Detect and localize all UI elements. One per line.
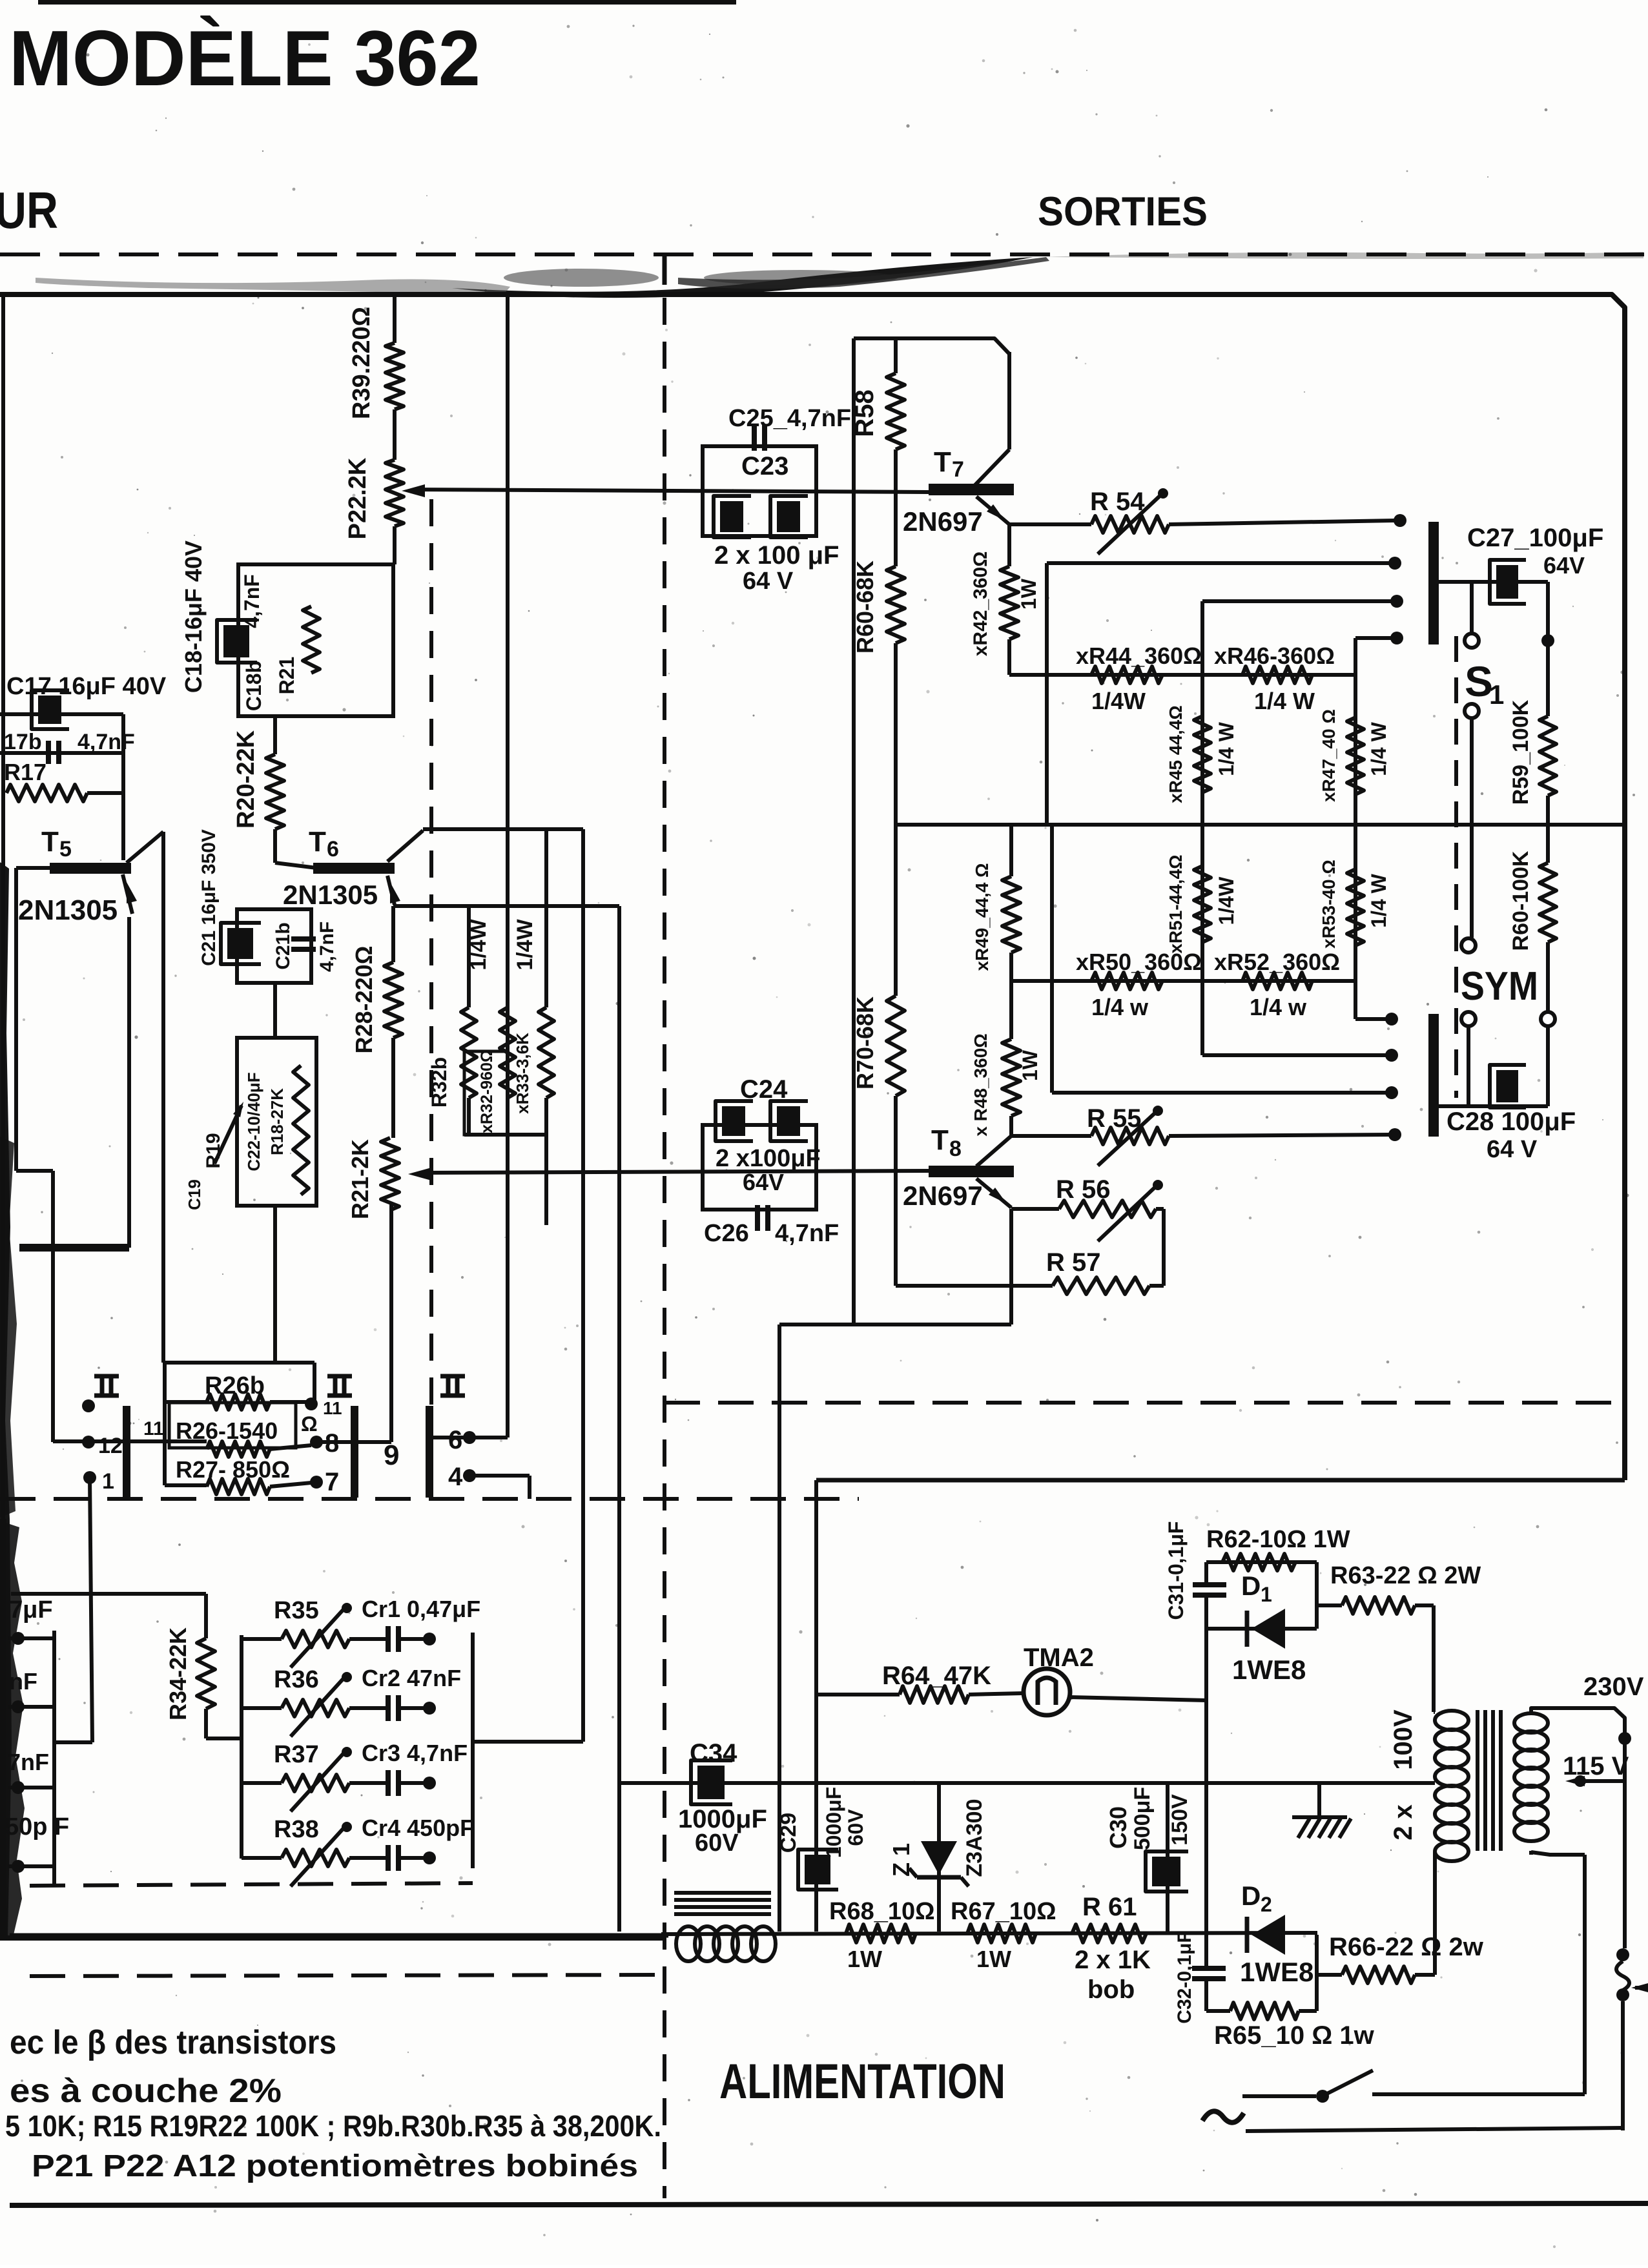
svg-text:1W: 1W bbox=[1018, 1049, 1042, 1081]
svg-text:R59_100K: R59_100K bbox=[1509, 699, 1533, 805]
svg-text:1000μF: 1000μF bbox=[822, 1787, 845, 1858]
svg-text:500μF: 500μF bbox=[1130, 1787, 1155, 1850]
svg-text:R68_10Ω: R68_10Ω bbox=[829, 1898, 935, 1925]
svg-text:nF: nF bbox=[9, 1668, 37, 1695]
svg-text:2 x: 2 x bbox=[1389, 1804, 1417, 1840]
svg-text:2 x 100 μF: 2 x 100 μF bbox=[714, 541, 839, 570]
svg-text:x R48_360Ω: x R48_360Ω bbox=[971, 1033, 991, 1136]
svg-text:4,7nF: 4,7nF bbox=[775, 1220, 839, 1247]
svg-text:R36: R36 bbox=[274, 1666, 319, 1693]
svg-text:1/4 w: 1/4 w bbox=[1091, 994, 1149, 1020]
svg-text:C18b: C18b bbox=[242, 661, 265, 711]
svg-text:R60-68K: R60-68K bbox=[852, 561, 878, 654]
svg-text:R66-22 Ω 2w: R66-22 Ω 2w bbox=[1329, 1933, 1484, 1961]
svg-text:6: 6 bbox=[327, 837, 339, 861]
svg-text:xR53-40 Ω: xR53-40 Ω bbox=[1319, 860, 1339, 949]
svg-text:5 10K; R15 R19R22 100K ; R9b.R: 5 10K; R15 R19R22 100K ; R9b.R30b.R35 à … bbox=[5, 2109, 661, 2143]
svg-text:R37: R37 bbox=[274, 1741, 319, 1768]
svg-text:xR49_44,4 Ω: xR49_44,4 Ω bbox=[972, 863, 992, 971]
svg-text:100V: 100V bbox=[1389, 1709, 1417, 1770]
svg-text:xR47_40 Ω: xR47_40 Ω bbox=[1319, 709, 1339, 802]
svg-text:D: D bbox=[1241, 1571, 1261, 1601]
svg-text:C23: C23 bbox=[741, 452, 788, 480]
svg-text:64V: 64V bbox=[1543, 552, 1585, 579]
svg-text:50p F: 50p F bbox=[5, 1813, 69, 1840]
svg-text:P22.2K: P22.2K bbox=[344, 457, 371, 539]
svg-text:R34-22K: R34-22K bbox=[165, 1627, 191, 1720]
svg-text:1WE8: 1WE8 bbox=[1240, 1957, 1313, 1987]
svg-text:11: 11 bbox=[323, 1398, 342, 1418]
svg-text:150V: 150V bbox=[1168, 1794, 1192, 1846]
svg-text:C18-16μF 40V: C18-16μF 40V bbox=[180, 541, 207, 693]
svg-text:1/4 w: 1/4 w bbox=[1250, 994, 1307, 1020]
svg-text:R64_47K: R64_47K bbox=[882, 1662, 991, 1690]
svg-text:2N697: 2N697 bbox=[903, 1180, 983, 1211]
svg-text:C29: C29 bbox=[776, 1813, 801, 1853]
svg-text:64 V: 64 V bbox=[1487, 1136, 1538, 1163]
svg-text:C17 16μF 40V: C17 16μF 40V bbox=[6, 673, 167, 700]
svg-text:60V: 60V bbox=[844, 1809, 867, 1846]
svg-text:Cr4 450pF: Cr4 450pF bbox=[362, 1815, 474, 1841]
svg-text:1W: 1W bbox=[1017, 578, 1040, 610]
svg-text:Cr1 0,47μF: Cr1 0,47μF bbox=[362, 1596, 480, 1622]
svg-text:C30: C30 bbox=[1105, 1806, 1131, 1849]
svg-text:1/4 W: 1/4 W bbox=[1367, 721, 1390, 776]
svg-text:R18-27K: R18-27K bbox=[267, 1088, 287, 1155]
svg-text:8: 8 bbox=[949, 1137, 962, 1161]
svg-text:230V: 230V bbox=[1583, 1673, 1644, 1701]
svg-text:1/4W: 1/4W bbox=[513, 918, 537, 970]
svg-text:Ω: Ω bbox=[301, 1412, 318, 1436]
svg-text:R28-220Ω: R28-220Ω bbox=[351, 946, 377, 1054]
svg-text:7: 7 bbox=[952, 457, 964, 482]
svg-text:xR32-960Ω: xR32-960Ω bbox=[478, 1049, 496, 1133]
svg-text:R 61: R 61 bbox=[1082, 1893, 1137, 1921]
svg-text:1/4W: 1/4W bbox=[1091, 688, 1146, 714]
svg-text:R67_10Ω: R67_10Ω bbox=[951, 1898, 1056, 1925]
svg-text:11: 11 bbox=[143, 1418, 164, 1439]
svg-text:7: 7 bbox=[325, 1468, 339, 1496]
svg-text:bob: bob bbox=[1087, 1975, 1135, 2004]
svg-text:17b: 17b bbox=[4, 730, 42, 754]
svg-text:xR52_360Ω: xR52_360Ω bbox=[1214, 949, 1340, 975]
svg-text:C26: C26 bbox=[704, 1220, 749, 1247]
svg-text:2: 2 bbox=[1261, 1893, 1272, 1916]
svg-text:D: D bbox=[1241, 1881, 1261, 1911]
svg-text:xR44_360Ω: xR44_360Ω bbox=[1076, 643, 1202, 669]
svg-text:TMA2: TMA2 bbox=[1024, 1644, 1094, 1672]
svg-text:Z3A300: Z3A300 bbox=[962, 1799, 987, 1877]
svg-text:C22-10/40μF: C22-10/40μF bbox=[244, 1072, 263, 1171]
svg-text:T: T bbox=[309, 826, 326, 858]
svg-text:R35: R35 bbox=[274, 1597, 319, 1624]
svg-text:xR46-360Ω: xR46-360Ω bbox=[1214, 643, 1335, 669]
svg-text:2N697: 2N697 bbox=[903, 506, 983, 537]
svg-text:7μF: 7μF bbox=[9, 1596, 53, 1624]
svg-text:R70-68K: R70-68K bbox=[852, 996, 878, 1089]
svg-text:5: 5 bbox=[59, 837, 72, 861]
svg-text:R58: R58 bbox=[850, 389, 879, 437]
svg-text:xR50_360Ω: xR50_360Ω bbox=[1076, 949, 1202, 975]
svg-text:C21b: C21b bbox=[273, 922, 294, 969]
svg-text:R38: R38 bbox=[274, 1816, 319, 1843]
svg-text:xR33-3,6K: xR33-3,6K bbox=[513, 1033, 532, 1114]
svg-text:R 54: R 54 bbox=[1090, 488, 1145, 516]
svg-text:Cr3 4,7nF: Cr3 4,7nF bbox=[362, 1740, 468, 1766]
svg-text:R60-100K: R60-100K bbox=[1509, 850, 1533, 951]
svg-text:Z 1: Z 1 bbox=[888, 1843, 914, 1877]
svg-text:C34: C34 bbox=[690, 1739, 737, 1768]
svg-text:1WE8: 1WE8 bbox=[1232, 1655, 1306, 1685]
svg-text:T: T bbox=[931, 1124, 949, 1156]
svg-text:R 57: R 57 bbox=[1046, 1248, 1101, 1277]
svg-text:R19: R19 bbox=[203, 1133, 224, 1168]
svg-text:R63-22 Ω 2W: R63-22 Ω 2W bbox=[1330, 1562, 1481, 1589]
svg-text:P21 P22 A12 potentiomètres: P21 P22 A12 potentiomètres bobinés bbox=[32, 2149, 638, 2183]
svg-text:C28 100μF: C28 100μF bbox=[1447, 1108, 1576, 1136]
svg-text:1: 1 bbox=[1261, 1583, 1272, 1606]
svg-text:C21 16μF 350V: C21 16μF 350V bbox=[198, 829, 220, 966]
svg-text:4,7nF: 4,7nF bbox=[77, 730, 135, 754]
svg-text:MODÈLE 362: MODÈLE 362 bbox=[9, 14, 480, 102]
svg-text:R21: R21 bbox=[275, 657, 298, 695]
svg-text:6: 6 bbox=[448, 1426, 462, 1454]
svg-text:1: 1 bbox=[1489, 679, 1504, 710]
svg-text:R17: R17 bbox=[4, 759, 46, 785]
svg-text:ec le β des transistors: ec le β des transistors bbox=[10, 2024, 336, 2061]
svg-text:1/4W: 1/4W bbox=[1215, 876, 1238, 925]
svg-text:64V: 64V bbox=[743, 1169, 784, 1195]
svg-text:C27_100μF: C27_100μF bbox=[1467, 524, 1603, 552]
svg-text:C32-0,1μF: C32-0,1μF bbox=[1174, 1931, 1195, 2023]
svg-text:UR: UR bbox=[0, 181, 58, 239]
svg-text:C31-0,1μF: C31-0,1μF bbox=[1164, 1521, 1188, 1620]
svg-text:SORTIES: SORTIES bbox=[1038, 189, 1208, 234]
svg-text:1W: 1W bbox=[976, 1946, 1011, 1972]
svg-text:64 V: 64 V bbox=[743, 568, 794, 595]
svg-text:12: 12 bbox=[98, 1434, 123, 1458]
svg-text:es à couche 2%: es à couche 2% bbox=[10, 2072, 282, 2110]
svg-text:2N1305: 2N1305 bbox=[18, 894, 118, 926]
svg-text:1/4 W: 1/4 W bbox=[1254, 688, 1315, 714]
svg-text:1/4W: 1/4W bbox=[466, 918, 491, 970]
svg-text:xR45 44,4Ω: xR45 44,4Ω bbox=[1166, 705, 1186, 803]
svg-text:C25_4,7nF: C25_4,7nF bbox=[728, 405, 851, 432]
svg-text:xR51-44,4Ω: xR51-44,4Ω bbox=[1166, 854, 1186, 953]
svg-text:2 x 1K: 2 x 1K bbox=[1075, 1946, 1151, 1974]
svg-text:SYM: SYM bbox=[1461, 964, 1538, 1009]
svg-text:R27- 850Ω: R27- 850Ω bbox=[176, 1456, 290, 1483]
svg-text:4,7nF: 4,7nF bbox=[316, 922, 338, 972]
svg-text:ALIMENTATION: ALIMENTATION bbox=[719, 2054, 1005, 2109]
svg-text:xR42_360Ω: xR42_360Ω bbox=[970, 552, 991, 657]
svg-text:9: 9 bbox=[384, 1439, 399, 1471]
svg-text:2 x100μF: 2 x100μF bbox=[716, 1145, 821, 1172]
svg-text:2N1305: 2N1305 bbox=[283, 880, 378, 910]
svg-text:7nF: 7nF bbox=[8, 1749, 49, 1775]
svg-text:R21-2K: R21-2K bbox=[347, 1139, 373, 1219]
svg-text:1/4 W: 1/4 W bbox=[1215, 721, 1238, 776]
svg-text:R26b: R26b bbox=[205, 1372, 265, 1399]
svg-text:Cr2 47nF: Cr2 47nF bbox=[362, 1665, 461, 1691]
svg-text:4: 4 bbox=[448, 1463, 463, 1491]
svg-text:60V: 60V bbox=[695, 1830, 739, 1857]
svg-text:1: 1 bbox=[102, 1469, 114, 1494]
svg-text:R39.220Ω: R39.220Ω bbox=[348, 307, 375, 419]
svg-text:R32b: R32b bbox=[427, 1057, 451, 1108]
svg-text:T: T bbox=[41, 826, 59, 858]
svg-text:R62-10Ω 1W: R62-10Ω 1W bbox=[1206, 1526, 1350, 1553]
svg-text:4,7nF: 4,7nF bbox=[240, 574, 263, 628]
svg-text:C19: C19 bbox=[185, 1179, 204, 1210]
svg-text:T: T bbox=[934, 446, 951, 478]
svg-text:1W: 1W bbox=[847, 1946, 882, 1972]
svg-text:115 V: 115 V bbox=[1563, 1752, 1629, 1780]
svg-text:R20-22K: R20-22K bbox=[232, 730, 260, 829]
svg-text:1/4 W: 1/4 W bbox=[1367, 873, 1390, 927]
svg-text:R65_10 Ω 1w: R65_10 Ω 1w bbox=[1214, 2021, 1375, 2050]
